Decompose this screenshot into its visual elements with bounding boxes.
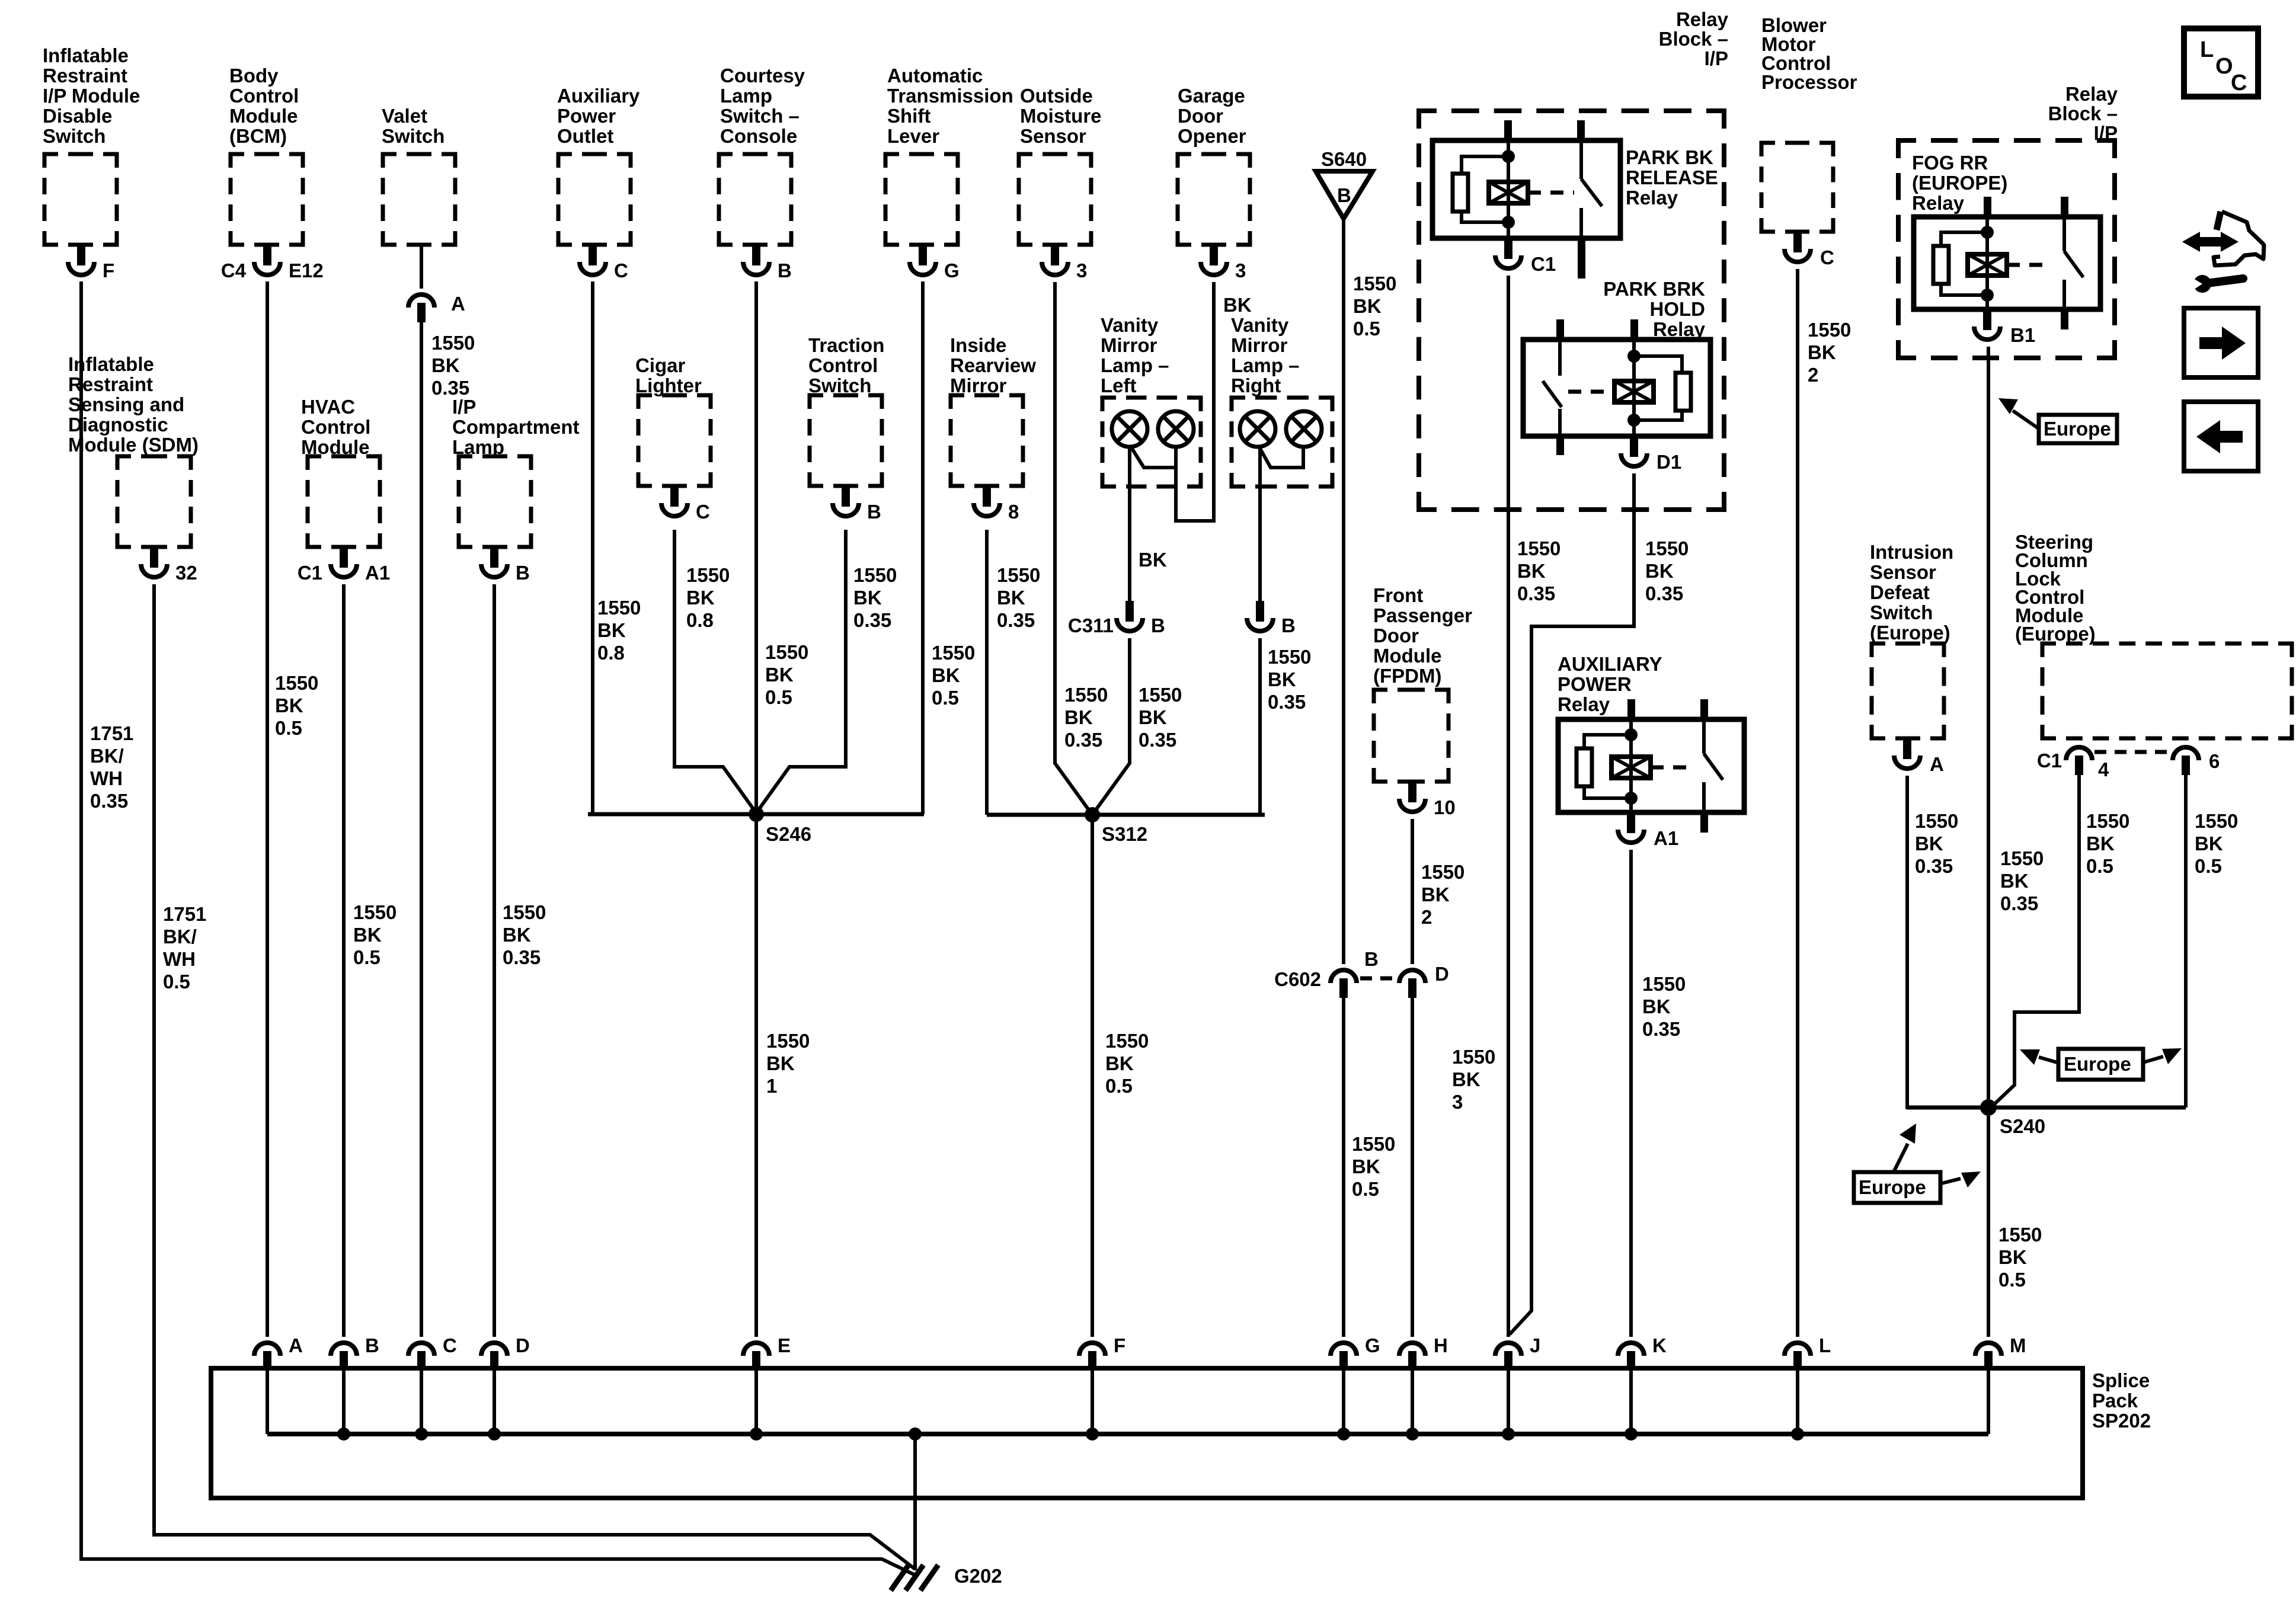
svg-text:B: B xyxy=(365,1334,379,1356)
svg-text:0.35: 0.35 xyxy=(1642,1018,1680,1040)
svg-text:Control: Control xyxy=(301,416,370,438)
svg-text:C: C xyxy=(696,501,710,523)
svg-text:L: L xyxy=(1819,1334,1831,1356)
svg-text:0.5: 0.5 xyxy=(932,687,959,709)
svg-text:1550: 1550 xyxy=(932,642,975,664)
svg-text:1550: 1550 xyxy=(1421,861,1464,883)
svg-text:AUXILIARY: AUXILIARY xyxy=(1558,653,1662,675)
svg-text:Relay: Relay xyxy=(1912,192,1965,214)
svg-text:Passenger: Passenger xyxy=(1373,604,1472,626)
svg-text:(Europe): (Europe) xyxy=(2015,623,2096,645)
svg-text:(EUROPE): (EUROPE) xyxy=(1912,172,2007,194)
svg-text:BK: BK xyxy=(275,694,303,716)
svg-text:BK: BK xyxy=(686,587,715,609)
svg-text:BK: BK xyxy=(932,664,960,686)
svg-text:BK/: BK/ xyxy=(90,745,124,767)
svg-text:Restraint: Restraint xyxy=(43,65,127,87)
svg-text:0.35: 0.35 xyxy=(1139,729,1176,751)
svg-text:Right: Right xyxy=(1231,375,1281,396)
svg-text:1751: 1751 xyxy=(163,903,206,925)
svg-text:0.8: 0.8 xyxy=(686,609,714,631)
svg-text:Mirror: Mirror xyxy=(950,375,1007,396)
svg-text:Control: Control xyxy=(808,354,878,376)
svg-text:C: C xyxy=(1820,247,1834,268)
svg-text:Door: Door xyxy=(1373,625,1419,646)
svg-text:0.35: 0.35 xyxy=(1064,729,1102,751)
svg-text:B1: B1 xyxy=(2010,324,2035,346)
svg-text:Pack: Pack xyxy=(2092,1390,2138,1411)
svg-text:BK: BK xyxy=(1517,560,1546,582)
svg-text:Module (SDM): Module (SDM) xyxy=(68,434,199,456)
svg-text:0.35: 0.35 xyxy=(2000,892,2038,914)
svg-text:E12: E12 xyxy=(289,260,324,281)
svg-text:C1: C1 xyxy=(2037,750,2062,772)
svg-text:BK: BK xyxy=(2195,833,2223,854)
svg-text:1550: 1550 xyxy=(353,901,396,923)
svg-text:D1: D1 xyxy=(1657,451,1681,473)
svg-text:Console: Console xyxy=(720,125,797,147)
svg-text:Diagnostic: Diagnostic xyxy=(68,414,168,436)
svg-text:B: B xyxy=(1364,948,1379,970)
svg-text:BK: BK xyxy=(1268,668,1296,690)
svg-text:I/P: I/P xyxy=(2094,122,2118,144)
svg-text:B: B xyxy=(867,501,881,523)
svg-text:Module: Module xyxy=(301,436,369,458)
svg-text:S240: S240 xyxy=(2000,1115,2045,1137)
svg-text:0.5: 0.5 xyxy=(353,946,380,968)
svg-text:PARK BK: PARK BK xyxy=(1626,146,1713,168)
svg-text:BK: BK xyxy=(353,924,382,946)
svg-text:0.35: 0.35 xyxy=(1268,691,1306,713)
svg-text:Power: Power xyxy=(557,105,616,127)
svg-text:G202: G202 xyxy=(954,1565,1002,1587)
svg-text:S640: S640 xyxy=(1321,148,1367,170)
svg-text:3: 3 xyxy=(1452,1091,1463,1113)
svg-text:0.8: 0.8 xyxy=(597,642,625,664)
svg-text:Relay: Relay xyxy=(1626,187,1678,209)
svg-text:Block –: Block – xyxy=(1659,28,1728,50)
svg-text:Module: Module xyxy=(229,105,298,127)
svg-text:0.35: 0.35 xyxy=(997,609,1035,631)
svg-text:1550: 1550 xyxy=(431,332,475,354)
svg-text:C: C xyxy=(614,260,628,281)
svg-text:Lamp: Lamp xyxy=(452,436,504,458)
svg-text:Intrusion: Intrusion xyxy=(1870,541,1953,563)
svg-text:Cigar: Cigar xyxy=(635,354,686,376)
svg-text:1550: 1550 xyxy=(853,564,897,586)
svg-text:0.5: 0.5 xyxy=(2195,855,2222,877)
svg-text:Traction: Traction xyxy=(808,334,884,356)
svg-text:C602: C602 xyxy=(1274,968,1321,990)
svg-text:1550: 1550 xyxy=(1268,646,1311,668)
svg-text:Relay: Relay xyxy=(1558,693,1610,715)
svg-text:BK: BK xyxy=(1139,706,1167,728)
svg-text:Switch: Switch xyxy=(1870,601,1933,623)
svg-text:Europe: Europe xyxy=(1859,1176,1926,1198)
svg-text:Sensing and: Sensing and xyxy=(68,393,184,415)
svg-text:C: C xyxy=(2231,71,2247,95)
svg-text:0.35: 0.35 xyxy=(1645,582,1683,604)
svg-text:BK: BK xyxy=(766,1052,795,1074)
svg-text:0.5: 0.5 xyxy=(163,971,190,993)
svg-text:A: A xyxy=(451,293,465,315)
svg-text:J: J xyxy=(1530,1334,1540,1356)
svg-text:I/P: I/P xyxy=(452,396,476,418)
svg-text:D: D xyxy=(516,1334,530,1356)
svg-text:0.5: 0.5 xyxy=(1353,318,1380,340)
svg-text:Defeat: Defeat xyxy=(1870,581,1930,603)
svg-text:C1: C1 xyxy=(1531,253,1556,275)
svg-text:Block –: Block – xyxy=(2048,103,2118,124)
svg-text:BK: BK xyxy=(1642,996,1671,1017)
svg-text:BK: BK xyxy=(1452,1068,1480,1090)
svg-text:Valet: Valet xyxy=(382,105,427,127)
svg-text:Vanity: Vanity xyxy=(1101,314,1159,336)
svg-text:BK: BK xyxy=(1353,295,1382,317)
svg-text:Switch: Switch xyxy=(382,125,445,147)
svg-text:Europe: Europe xyxy=(2044,418,2111,440)
svg-text:1550: 1550 xyxy=(1139,684,1182,706)
svg-text:I/P Module: I/P Module xyxy=(43,85,140,107)
svg-text:C1: C1 xyxy=(298,562,322,584)
svg-text:C4: C4 xyxy=(221,260,247,281)
svg-text:1550: 1550 xyxy=(1105,1030,1149,1052)
svg-text:BK: BK xyxy=(503,924,531,946)
svg-text:L: L xyxy=(2200,37,2214,62)
svg-text:0.5: 0.5 xyxy=(2086,855,2113,877)
svg-text:1550: 1550 xyxy=(765,641,808,663)
svg-text:0.35: 0.35 xyxy=(90,790,128,812)
svg-text:1550: 1550 xyxy=(1808,319,1851,341)
svg-text:1550: 1550 xyxy=(1353,273,1396,295)
svg-text:BK: BK xyxy=(853,587,882,609)
svg-text:0.5: 0.5 xyxy=(765,686,792,708)
svg-text:Relay: Relay xyxy=(2065,83,2118,105)
svg-text:E: E xyxy=(778,1334,791,1356)
svg-text:B: B xyxy=(778,260,792,281)
svg-text:B: B xyxy=(1281,614,1296,636)
svg-text:BK: BK xyxy=(1915,833,1943,854)
svg-text:BK: BK xyxy=(2000,870,2029,892)
svg-text:F: F xyxy=(1114,1334,1125,1356)
svg-text:1: 1 xyxy=(766,1075,777,1097)
svg-text:Mirror: Mirror xyxy=(1101,334,1157,356)
svg-text:Transmission: Transmission xyxy=(887,85,1013,107)
svg-text:BK: BK xyxy=(1223,294,1252,316)
svg-text:Outside: Outside xyxy=(1020,85,1093,107)
svg-text:BK: BK xyxy=(1352,1156,1380,1177)
svg-text:Switch –: Switch – xyxy=(720,105,800,127)
svg-text:Module: Module xyxy=(1373,645,1441,667)
svg-text:1550: 1550 xyxy=(766,1030,810,1052)
svg-text:1550: 1550 xyxy=(1998,1224,2042,1246)
svg-text:(Europe): (Europe) xyxy=(1870,622,1950,644)
svg-text:0.5: 0.5 xyxy=(1352,1178,1379,1200)
svg-text:1550: 1550 xyxy=(1915,810,1958,832)
svg-text:8: 8 xyxy=(1008,501,1019,523)
svg-text:3: 3 xyxy=(1076,260,1087,281)
svg-text:BK: BK xyxy=(1808,341,1836,363)
svg-text:BK: BK xyxy=(765,664,794,686)
svg-text:Opener: Opener xyxy=(1178,125,1246,147)
svg-text:1550: 1550 xyxy=(997,564,1040,586)
svg-text:Lamp: Lamp xyxy=(720,85,772,107)
svg-text:1550: 1550 xyxy=(1452,1046,1495,1068)
svg-text:A1: A1 xyxy=(365,562,390,584)
svg-text:1550: 1550 xyxy=(503,901,546,923)
svg-text:Vanity: Vanity xyxy=(1231,314,1289,336)
svg-text:Shift: Shift xyxy=(887,105,930,127)
svg-text:Door: Door xyxy=(1178,105,1223,127)
svg-text:Switch: Switch xyxy=(808,375,871,396)
svg-text:3: 3 xyxy=(1235,260,1246,281)
svg-text:BK/: BK/ xyxy=(163,926,197,948)
svg-text:0.35: 0.35 xyxy=(503,946,541,968)
svg-text:BK: BK xyxy=(1139,549,1167,571)
svg-text:Garage: Garage xyxy=(1178,85,1245,107)
svg-text:1550: 1550 xyxy=(1064,684,1108,706)
svg-text:Rearview: Rearview xyxy=(950,354,1036,376)
svg-text:BK: BK xyxy=(1645,560,1674,582)
svg-text:Europe: Europe xyxy=(2064,1053,2131,1075)
svg-text:BK: BK xyxy=(2086,833,2115,854)
svg-text:4: 4 xyxy=(2098,758,2109,780)
svg-text:1550: 1550 xyxy=(2000,847,2044,869)
svg-text:Front: Front xyxy=(1373,584,1423,606)
svg-text:Body: Body xyxy=(229,65,279,87)
svg-text:Lever: Lever xyxy=(887,125,939,147)
svg-text:0.5: 0.5 xyxy=(1998,1269,2026,1291)
svg-text:Mirror: Mirror xyxy=(1231,334,1288,356)
svg-text:Lamp –: Lamp – xyxy=(1101,354,1169,376)
svg-text:POWER: POWER xyxy=(1558,673,1632,695)
svg-text:F: F xyxy=(103,260,114,281)
svg-text:1751: 1751 xyxy=(90,722,133,744)
svg-text:Moisture: Moisture xyxy=(1020,105,1102,127)
svg-text:Outlet: Outlet xyxy=(557,125,613,147)
svg-text:H: H xyxy=(1434,1334,1448,1356)
svg-text:S312: S312 xyxy=(1102,823,1147,845)
svg-text:C311: C311 xyxy=(1068,614,1114,636)
svg-text:K: K xyxy=(1652,1334,1667,1356)
svg-text:0.35: 0.35 xyxy=(1915,855,1953,877)
svg-text:Disable: Disable xyxy=(43,105,112,127)
svg-text:10: 10 xyxy=(1434,796,1456,818)
svg-text:1550: 1550 xyxy=(1645,537,1689,559)
svg-text:B: B xyxy=(1151,614,1165,636)
svg-text:Lighter: Lighter xyxy=(635,375,702,396)
svg-text:SP202: SP202 xyxy=(2092,1410,2151,1432)
svg-text:HOLD: HOLD xyxy=(1650,298,1706,320)
svg-text:BK: BK xyxy=(431,354,460,376)
svg-text:D: D xyxy=(1435,963,1449,985)
svg-text:32: 32 xyxy=(175,562,197,584)
svg-text:A1: A1 xyxy=(1654,827,1678,849)
svg-text:B: B xyxy=(1337,184,1351,206)
svg-text:(FPDM): (FPDM) xyxy=(1373,665,1441,687)
svg-text:Relay: Relay xyxy=(1653,318,1706,340)
svg-text:S246: S246 xyxy=(766,823,811,845)
svg-text:Splice: Splice xyxy=(2092,1369,2150,1391)
svg-text:BK: BK xyxy=(1064,706,1093,728)
svg-text:0.35: 0.35 xyxy=(853,609,891,631)
svg-text:1550: 1550 xyxy=(2195,810,2238,832)
svg-text:Automatic: Automatic xyxy=(887,65,983,87)
svg-text:G: G xyxy=(1365,1334,1380,1356)
svg-text:WH: WH xyxy=(90,767,123,789)
svg-text:C: C xyxy=(443,1334,457,1356)
svg-text:1550: 1550 xyxy=(1352,1133,1395,1155)
svg-text:Lamp –: Lamp – xyxy=(1231,354,1300,376)
svg-text:RELEASE: RELEASE xyxy=(1626,167,1718,188)
svg-text:1550: 1550 xyxy=(597,597,641,619)
svg-text:FOG RR: FOG RR xyxy=(1912,152,1988,174)
svg-text:Control: Control xyxy=(229,85,299,107)
svg-text:1550: 1550 xyxy=(1517,537,1560,559)
svg-text:1550: 1550 xyxy=(686,564,730,586)
svg-text:Sensor: Sensor xyxy=(1870,561,1936,583)
svg-text:BK: BK xyxy=(1998,1246,2027,1268)
svg-text:BK: BK xyxy=(997,587,1025,609)
svg-text:0.5: 0.5 xyxy=(1105,1075,1133,1097)
svg-text:0.35: 0.35 xyxy=(1517,582,1555,604)
svg-text:2: 2 xyxy=(1421,906,1432,928)
svg-text:G: G xyxy=(944,260,960,281)
svg-text:Sensor: Sensor xyxy=(1020,125,1086,147)
svg-text:A: A xyxy=(1930,753,1944,775)
svg-text:Left: Left xyxy=(1101,375,1137,396)
svg-text:Inside: Inside xyxy=(950,334,1006,356)
svg-text:1550: 1550 xyxy=(275,672,318,694)
svg-text:6: 6 xyxy=(2209,750,2220,772)
svg-text:(BCM): (BCM) xyxy=(229,125,287,147)
svg-text:Inflatable: Inflatable xyxy=(43,44,129,66)
svg-text:PARK BRK: PARK BRK xyxy=(1603,278,1705,300)
svg-text:I/P: I/P xyxy=(1705,47,1728,69)
svg-text:0.35: 0.35 xyxy=(431,377,469,399)
svg-text:Courtesy: Courtesy xyxy=(720,65,805,87)
svg-text:Compartment: Compartment xyxy=(452,416,580,438)
svg-text:M: M xyxy=(2010,1334,2026,1356)
svg-text:1550: 1550 xyxy=(1642,973,1686,995)
svg-text:B: B xyxy=(516,562,530,584)
svg-text:1550: 1550 xyxy=(2086,810,2129,832)
svg-text:HVAC: HVAC xyxy=(301,396,355,418)
svg-text:A: A xyxy=(289,1334,303,1356)
svg-text:BK: BK xyxy=(597,619,626,641)
svg-text:WH: WH xyxy=(163,948,196,970)
svg-text:Switch: Switch xyxy=(43,125,105,147)
svg-text:2: 2 xyxy=(1808,364,1818,386)
svg-text:Relay: Relay xyxy=(1676,8,1729,30)
svg-text:BK: BK xyxy=(1421,884,1450,905)
svg-text:BK: BK xyxy=(1105,1052,1134,1074)
svg-text:0.5: 0.5 xyxy=(275,717,302,739)
svg-text:Auxiliary: Auxiliary xyxy=(557,85,640,107)
svg-text:Processor: Processor xyxy=(1761,71,1857,93)
